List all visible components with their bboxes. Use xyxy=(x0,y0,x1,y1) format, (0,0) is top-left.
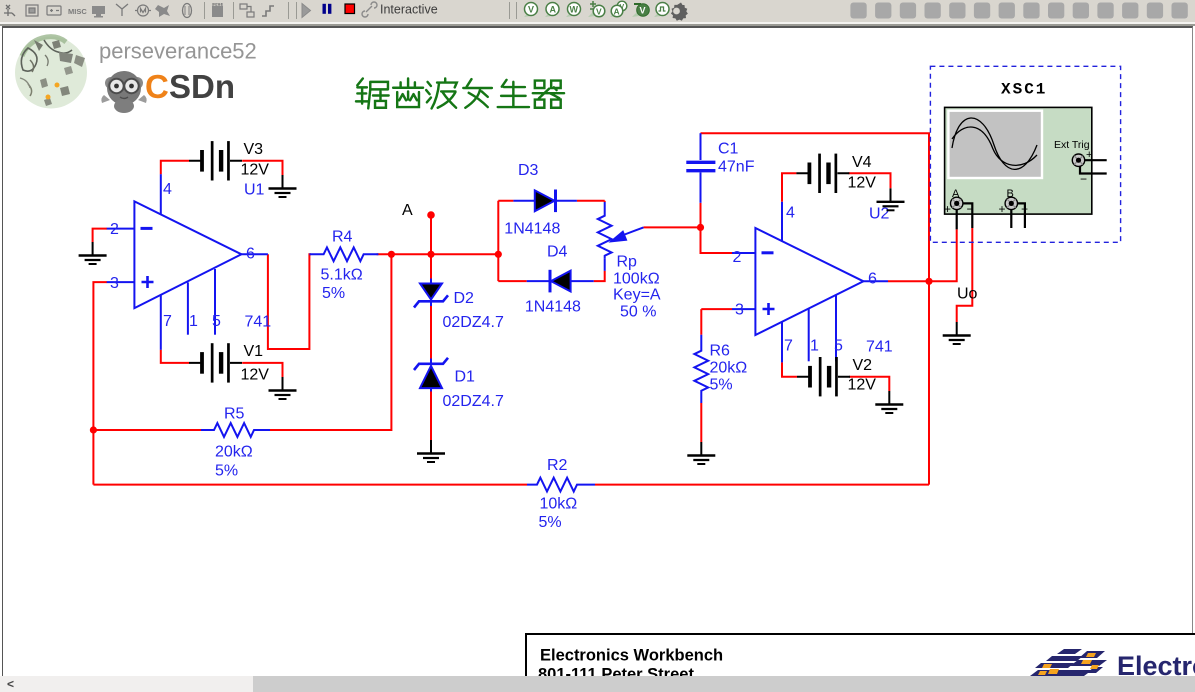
junction C1 / wiper / U2 pin2 xyxy=(697,224,704,231)
ground for V4 xyxy=(877,188,905,210)
wire node to D2 xyxy=(430,254,432,280)
svg-text:50 %: 50 % xyxy=(620,304,656,321)
svg-text:3: 3 xyxy=(735,302,744,319)
wire ground to U1 pin2 xyxy=(93,229,107,242)
meter icon -V filled xyxy=(632,4,649,17)
ground at U1 pin2 xyxy=(79,242,107,264)
svg-text:XSC1: XSC1 xyxy=(1001,81,1047,99)
svg-text:02DZ4.7: 02DZ4.7 xyxy=(443,314,504,331)
diode D4 xyxy=(527,270,594,293)
separator xyxy=(233,2,235,19)
wire R4 to node junction xyxy=(377,253,499,255)
char 锯 xyxy=(356,79,389,109)
ground at scope A- xyxy=(943,322,971,344)
wire U1 pin3 left column down to bottom net xyxy=(93,282,107,485)
svg-text:D4: D4 xyxy=(547,244,568,261)
svg-text:V2: V2 xyxy=(853,357,873,374)
icon antenna xyxy=(116,4,128,16)
svg-text:12V: 12V xyxy=(241,162,270,179)
zener diode D2 xyxy=(414,279,448,308)
svg-text:10kΩ: 10kΩ xyxy=(540,496,578,513)
capacitor C1 xyxy=(686,133,715,203)
svg-text:5: 5 xyxy=(834,338,843,355)
svg-text:5%: 5% xyxy=(215,463,238,480)
svg-text:741: 741 xyxy=(245,314,272,331)
svg-text:Interactive: Interactive xyxy=(380,3,438,17)
meter icon +V xyxy=(588,1,605,17)
svg-text:V: V xyxy=(528,5,534,15)
zener diode D1 xyxy=(414,358,448,392)
play button xyxy=(302,4,311,18)
svg-text:4: 4 xyxy=(786,205,795,222)
wire C1 node down to U2 pin2 xyxy=(701,227,733,253)
wire R6 to ground xyxy=(700,403,702,442)
svg-text:C1: C1 xyxy=(718,141,739,158)
wire R5 branch xyxy=(93,254,391,430)
green title 锯齿波发生器 xyxy=(356,79,564,109)
meter icon W xyxy=(566,3,581,18)
separator xyxy=(510,2,517,19)
svg-text:5%: 5% xyxy=(539,514,562,531)
scope waveform xyxy=(952,118,1037,169)
svg-text:3: 3 xyxy=(110,275,119,292)
svg-text:D3: D3 xyxy=(518,162,539,179)
wire output node to scope A+ xyxy=(929,229,957,281)
svg-text:Uo: Uo xyxy=(957,286,978,303)
ground below D1 xyxy=(417,440,445,462)
separator xyxy=(204,2,206,19)
svg-text:5%: 5% xyxy=(710,377,733,394)
icon staircase xyxy=(262,6,274,16)
docked instrument buttons xyxy=(850,3,1187,19)
svg-text:ROM: ROM xyxy=(213,2,222,7)
svg-text:V1: V1 xyxy=(244,343,264,360)
resistor R5 xyxy=(201,423,270,437)
resistor R4 xyxy=(309,247,378,261)
svg-text:20kΩ: 20kΩ xyxy=(215,444,253,461)
wire D1 to ground xyxy=(430,388,432,440)
junction U2 output xyxy=(925,278,932,285)
svg-text:A: A xyxy=(614,7,620,17)
svg-text:W: W xyxy=(570,5,579,15)
wire V3 to ground xyxy=(242,161,282,175)
wire D4 bottom branch xyxy=(498,271,604,281)
char 器 xyxy=(533,81,564,108)
icon hierarchy xyxy=(240,4,254,17)
char 齿 xyxy=(393,79,423,108)
wire diode loop left vertical xyxy=(497,201,499,281)
bottom title block xyxy=(526,634,1195,684)
separator xyxy=(289,2,297,19)
svg-text:C: C xyxy=(145,68,169,105)
resistor R2 xyxy=(527,478,595,492)
svg-text:1: 1 xyxy=(189,313,198,330)
svg-text:D2: D2 xyxy=(454,290,475,307)
svg-text:1N4148: 1N4148 xyxy=(525,299,581,316)
wire V1 to ground xyxy=(242,363,282,377)
icon misc dark xyxy=(155,5,170,17)
svg-text:20kΩ: 20kΩ xyxy=(710,360,748,377)
svg-text:6: 6 xyxy=(868,271,877,288)
channel B stub wires xyxy=(1011,203,1025,228)
svg-text:02DZ4.7: 02DZ4.7 xyxy=(443,393,504,410)
wrench icon xyxy=(362,2,377,17)
svg-text:1N4148: 1N4148 xyxy=(504,221,560,238)
svg-text:7: 7 xyxy=(163,313,172,330)
svg-text:A: A xyxy=(550,5,557,15)
op-amp U1 xyxy=(107,174,268,350)
icon basic parts box xyxy=(26,5,38,16)
channel A stub wires xyxy=(957,203,973,229)
svg-text:V: V xyxy=(640,6,646,16)
svg-text:1: 1 xyxy=(810,338,819,355)
svg-text:12V: 12V xyxy=(848,175,877,192)
svg-text:4: 4 xyxy=(163,181,172,198)
scope screen xyxy=(948,111,1042,178)
CSDN monkey logo xyxy=(101,71,146,113)
ground for V2 xyxy=(875,391,903,413)
toolbar icons xyxy=(4,1,1188,21)
wire scope A- to ground xyxy=(957,228,973,322)
svg-text:R5: R5 xyxy=(224,405,245,422)
svg-text:MISC: MISC xyxy=(68,7,87,16)
stop button xyxy=(345,4,355,14)
diode D3 xyxy=(513,190,577,213)
svg-text:5%: 5% xyxy=(322,285,345,302)
svg-text:+: + xyxy=(944,202,951,216)
battery V4 xyxy=(796,154,849,193)
wire U1 pin4 to V3 xyxy=(161,161,189,174)
wire bottom feedback net with R2 xyxy=(93,484,929,486)
potentiometer Rp xyxy=(598,202,644,271)
char 发 xyxy=(463,79,492,108)
svg-text:U1: U1 xyxy=(244,182,265,199)
resistor R6 xyxy=(694,335,708,403)
gear icon xyxy=(671,3,688,21)
svg-text:Ext Trig: Ext Trig xyxy=(1054,139,1090,151)
wire U2 pin4 to V4 xyxy=(782,173,796,202)
wire U2 pin7 to V2 xyxy=(782,362,797,376)
svg-text:V: V xyxy=(596,7,602,17)
char 生 xyxy=(498,80,529,107)
svg-text:Electronics Workbench: Electronics Workbench xyxy=(540,647,723,665)
char 波 xyxy=(426,79,457,109)
meter icon A xyxy=(545,3,559,18)
svg-text:Key=A: Key=A xyxy=(613,287,661,304)
oscilloscope XSC1 xyxy=(930,66,1120,242)
junction node A column xyxy=(427,251,434,258)
svg-text:12V: 12V xyxy=(848,377,877,394)
EWB logo stripes xyxy=(1030,649,1107,676)
wire V4 to ground xyxy=(848,173,890,188)
wire D3 top branch xyxy=(498,200,604,202)
wire Rp top lead red xyxy=(604,201,606,202)
svg-text:5.1kΩ: 5.1kΩ xyxy=(321,267,363,284)
junction R5 left xyxy=(90,426,97,433)
wire C1 up lead xyxy=(700,203,702,228)
wire U1 pin6 to R4 xyxy=(268,254,311,349)
svg-text:R6: R6 xyxy=(710,343,731,360)
wire D2 to D1 xyxy=(430,302,432,359)
battery V3 xyxy=(189,141,242,180)
icon battery source xyxy=(47,6,61,15)
junction diode loop left xyxy=(495,251,502,258)
selection dashed box xyxy=(930,66,1120,242)
wire C1 top to right column xyxy=(701,133,930,281)
ground for V1 xyxy=(269,377,297,399)
CSDN watermark avatar xyxy=(15,37,87,109)
icon monitor xyxy=(92,6,105,18)
svg-text:V4: V4 xyxy=(852,154,872,171)
wire V2 to ground xyxy=(849,377,889,391)
wire Rp wiper to C1 node xyxy=(644,226,701,228)
svg-text:6: 6 xyxy=(246,246,255,263)
pause button xyxy=(323,4,332,14)
svg-text:perseverance52: perseverance52 xyxy=(99,39,257,64)
wire node A stub xyxy=(430,215,432,254)
svg-text:Rp: Rp xyxy=(617,254,638,271)
svg-text:V3: V3 xyxy=(244,141,264,158)
Ext Trig terminal xyxy=(1072,154,1084,166)
Ext Trig stub wires xyxy=(1080,160,1107,173)
wire U1 pin7 to V1 xyxy=(161,350,189,363)
svg-text:R4: R4 xyxy=(332,229,353,246)
meter icon pulse xyxy=(654,3,669,18)
battery V1 xyxy=(189,343,242,382)
ground below R6 xyxy=(687,442,715,464)
svg-text:U2: U2 xyxy=(869,206,890,223)
svg-text:7: 7 xyxy=(784,338,793,355)
svg-text:A: A xyxy=(402,202,413,219)
svg-text:SDn: SDn xyxy=(169,68,235,105)
ground for V3 xyxy=(269,175,297,197)
icon ROM chip xyxy=(212,2,223,18)
node A marker dot xyxy=(427,211,435,219)
junction node at R4/R5 xyxy=(388,251,395,258)
wire U2 pin6 to output node xyxy=(888,280,929,282)
svg-text:+: + xyxy=(999,202,1006,216)
wire output node down to bottom net xyxy=(928,281,930,484)
meter icon V xyxy=(524,3,538,18)
battery V2 xyxy=(797,357,850,396)
svg-text:5: 5 xyxy=(212,313,221,330)
svg-text:12V: 12V xyxy=(241,367,270,384)
meter icon AV xyxy=(610,1,627,17)
horizontal scrollbar xyxy=(0,676,1195,692)
scope body xyxy=(945,107,1092,214)
svg-text:R2: R2 xyxy=(547,457,568,474)
icon opto capsule xyxy=(183,4,192,18)
svg-text:100kΩ: 100kΩ xyxy=(613,271,660,288)
svg-text:2: 2 xyxy=(110,221,119,238)
svg-text:741: 741 xyxy=(866,339,893,356)
svg-text:47nF: 47nF xyxy=(718,159,755,176)
svg-text:D1: D1 xyxy=(455,369,476,386)
wire U2 pin3 to R6 xyxy=(701,309,732,335)
svg-text:2: 2 xyxy=(733,249,742,266)
top toolbar xyxy=(0,0,1195,22)
icon motor xyxy=(135,5,151,16)
icon source probe xyxy=(4,5,15,16)
op-amp U2 xyxy=(732,202,888,363)
